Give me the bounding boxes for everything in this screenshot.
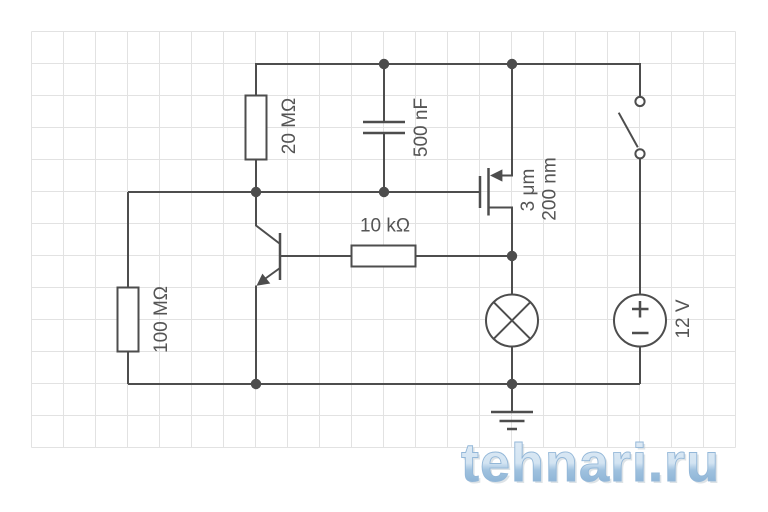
battery V1 12 V xyxy=(614,295,666,385)
resistor R3 100 MΩ xyxy=(118,288,139,352)
transistor M1 PMOS xyxy=(480,64,512,256)
watermark tehnari.ru xyxy=(461,433,722,495)
node gate rail R1 xyxy=(251,187,261,197)
switch SW1 xyxy=(619,97,645,295)
ground xyxy=(491,384,533,429)
wire gate rail xyxy=(128,191,479,193)
lamp L1 xyxy=(486,256,538,384)
node V+ top drain xyxy=(507,59,517,69)
node gate rail cap xyxy=(379,187,389,197)
arrowhead M1 xyxy=(490,169,502,181)
resistor R2 10 kΩ xyxy=(280,246,512,267)
svg-text:500 nF: 500 nF xyxy=(411,98,432,157)
capacitor C1 500 nF xyxy=(363,122,405,133)
svg-text:100 MΩ: 100 MΩ xyxy=(151,286,172,353)
svg-text:12 V: 12 V xyxy=(673,299,694,338)
svg-text:20 MΩ: 20 MΩ xyxy=(279,98,300,154)
wire R3 bottom to ground rail xyxy=(127,352,129,385)
resistor R1 20 MΩ xyxy=(246,96,267,160)
wire top rail xyxy=(256,64,640,96)
node V+ top cap xyxy=(379,59,389,69)
wire R1 bottom to gate rail xyxy=(255,160,257,193)
wire V+ node to capacitor top xyxy=(383,64,385,121)
node emitter bottom xyxy=(251,379,261,389)
transistor Q1 NPN xyxy=(256,192,280,384)
svg-text:tehnari.ru: tehnari.ru xyxy=(461,433,720,493)
svg-text:10 kΩ: 10 kΩ xyxy=(360,216,410,237)
node lamp bottom ground xyxy=(507,379,517,389)
svg-text:3 μm: 3 μm xyxy=(518,169,539,212)
arrowhead Q1 emitter xyxy=(257,274,271,286)
wire bottom rail xyxy=(128,383,640,385)
node source junction xyxy=(507,251,517,261)
wire left branch down to R3 xyxy=(127,192,129,288)
wire capacitor bottom to gate rail xyxy=(383,134,385,192)
svg-text:200 nm: 200 nm xyxy=(540,157,561,220)
